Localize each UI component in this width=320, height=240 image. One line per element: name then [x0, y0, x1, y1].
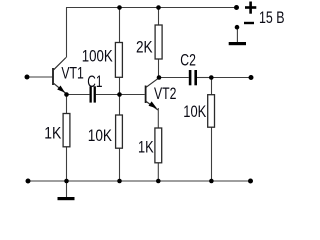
wire VT1 emitter to 1K [66, 95, 68, 114]
svg-text:2K: 2K [136, 38, 153, 57]
wire C1 to VT2 base [96, 94, 145, 96]
svg-text:100K: 100K [82, 47, 113, 66]
wire collector node to C2 [159, 77, 189, 79]
capacitor C1 plates [90, 86, 96, 102]
node bottom right terminal [248, 179, 253, 184]
wire top rail [66, 7, 237, 9]
svg-text:VT2: VT2 [154, 85, 176, 103]
svg-text:10K: 10K [183, 102, 206, 121]
wire 10K mid to bottom rail [119, 148, 121, 181]
resistor R 100K body [115, 43, 122, 78]
capacitor C2 plates [189, 70, 197, 85]
node input terminal [25, 75, 30, 80]
node 1K right bottom junction [156, 179, 161, 184]
node 10K mid bottom junction [117, 179, 122, 184]
wire 1K to bottom rail [66, 147, 68, 181]
svg-text:C2: C2 [180, 52, 196, 70]
resistor R 10K right body [208, 95, 215, 128]
node output terminal [249, 75, 254, 80]
node rail end battery plus [234, 5, 239, 10]
resistor R 10K mid body [116, 115, 123, 148]
wire VT1 base input [27, 76, 52, 78]
svg-text:10K: 10K [88, 127, 113, 146]
ground left [58, 197, 75, 200]
wire 2K to collector node [158, 59, 160, 78]
node VT2 base junction [117, 92, 122, 97]
wire output node to terminal [211, 77, 251, 79]
battery plus symbol [245, 2, 256, 14]
wire C2 to output node [197, 77, 211, 79]
node bottom left terminal [26, 179, 31, 184]
wire node to 10K mid [119, 94, 121, 115]
battery minus symbol [244, 22, 254, 24]
node 100K top rail junction [117, 5, 122, 10]
resistor R 1K left body [63, 114, 70, 147]
svg-text:15 В: 15 В [259, 9, 285, 27]
wire output node to 10K right [211, 78, 213, 95]
node 1K bottom junction [64, 179, 69, 184]
wire bottom rail [28, 180, 251, 182]
svg-text:1K: 1K [44, 124, 62, 143]
wire 10K right to bottom rail [211, 127, 213, 181]
wire 1K VT2 to bottom rail [157, 163, 159, 181]
wire VT1 collector vertical [66, 8, 68, 58]
node VT2 collector junction [157, 75, 162, 80]
node 10K right bottom junction [209, 179, 214, 184]
wire emitter node to C1 [67, 94, 90, 96]
node battery minus [235, 25, 240, 30]
wire top rail to 2K [158, 8, 160, 26]
node VT1 emitter junction [64, 92, 69, 97]
wire battery minus ground stub [236, 27, 238, 42]
wire VT2 emitter to 1K [157, 108, 159, 128]
wire top rail to 100K [119, 8, 121, 43]
resistor R 1K right body [155, 128, 162, 163]
ground battery [229, 42, 246, 45]
wire ground stub left [66, 181, 68, 198]
transistor VT2 [146, 78, 159, 110]
transistor VT1 [53, 58, 66, 94]
svg-text:C1: C1 [87, 73, 102, 92]
resistor R 2K body [155, 25, 162, 59]
node output junction [209, 75, 214, 80]
svg-text:VT1: VT1 [61, 65, 83, 83]
svg-text:1K: 1K [138, 138, 154, 157]
node 2K top rail junction [156, 5, 161, 10]
wire 100K to node [119, 77, 121, 94]
